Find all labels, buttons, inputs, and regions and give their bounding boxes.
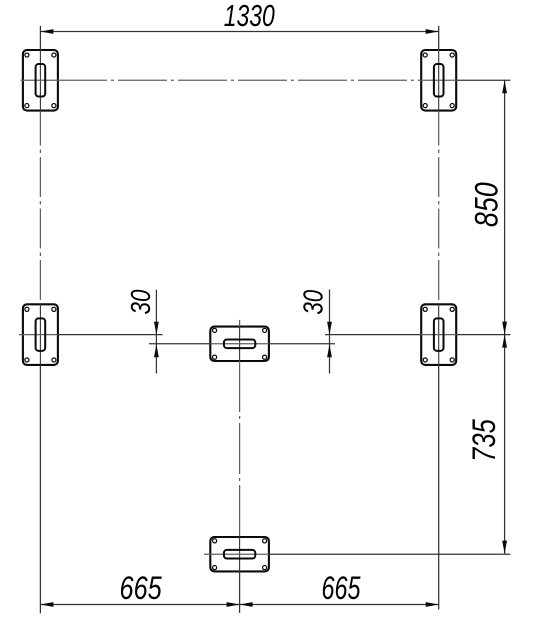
svg-text:30: 30: [126, 290, 157, 315]
svg-text:735: 735: [467, 418, 502, 461]
svg-text:665: 665: [120, 571, 163, 607]
svg-text:665: 665: [322, 570, 361, 605]
svg-text:30: 30: [298, 290, 329, 315]
svg-text:1330: 1330: [224, 0, 275, 33]
svg-text:850: 850: [469, 182, 505, 227]
